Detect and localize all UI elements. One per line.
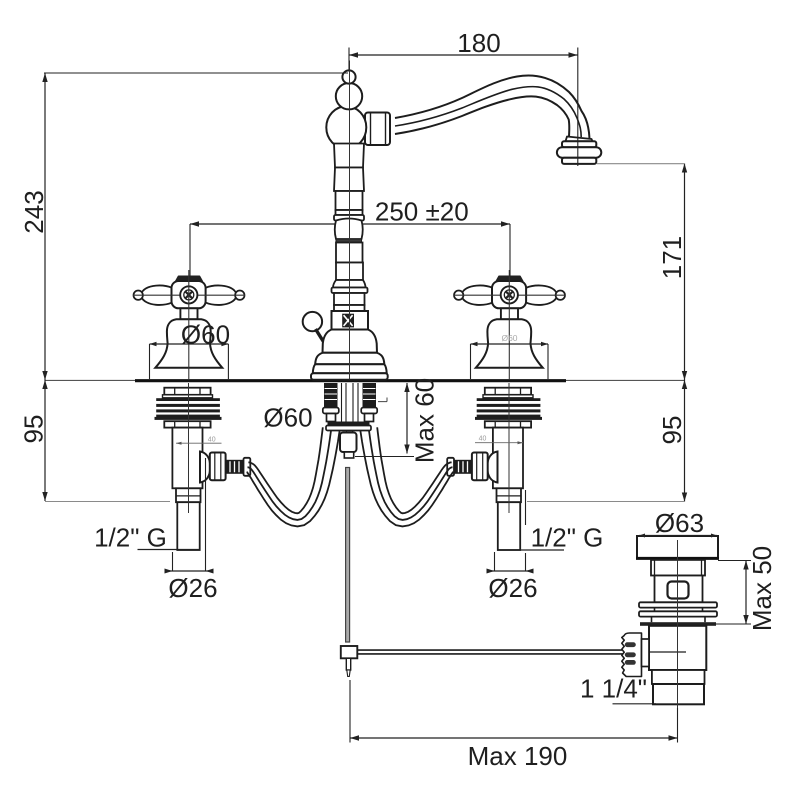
right elbow dome bbox=[487, 452, 497, 483]
left hose bbox=[247, 427, 340, 526]
svg-text:Ø63: Ø63 bbox=[655, 508, 704, 538]
drain upper body bbox=[655, 576, 703, 603]
column dark band bbox=[336, 239, 362, 243]
drain body between plates bbox=[655, 608, 703, 612]
thread mark line left valve bbox=[176, 442, 222, 445]
svg-text:250 ±20: 250 ±20 bbox=[375, 197, 469, 227]
mounting nut bbox=[340, 433, 357, 453]
drain mid body bbox=[649, 626, 706, 670]
drain plate 1 bbox=[639, 602, 717, 607]
pop-up knob plate bbox=[332, 311, 369, 330]
column centerline bbox=[349, 61, 351, 380]
serrated adjuster knob bbox=[622, 633, 642, 677]
under-deck stud right bbox=[363, 383, 377, 408]
tiny 40 left bbox=[208, 437, 216, 444]
column segment 9 bbox=[334, 305, 365, 311]
right handle bbox=[454, 270, 566, 379]
column bell dome bbox=[323, 330, 378, 353]
label 1/2 G right bbox=[498, 523, 604, 553]
dim 180 bbox=[349, 28, 578, 166]
label O60 column base bbox=[263, 403, 312, 433]
column bulge bbox=[335, 219, 363, 240]
drain flange bbox=[636, 536, 719, 558]
svg-text:40: 40 bbox=[479, 436, 487, 443]
svg-text:1/2" G: 1/2" G bbox=[94, 523, 167, 553]
deck extension thin left bbox=[45, 379, 135, 381]
svg-text:180: 180 bbox=[457, 28, 500, 58]
svg-text:Ø26: Ø26 bbox=[168, 573, 217, 603]
mounting cap bbox=[344, 452, 353, 458]
finial ball small bbox=[342, 70, 355, 83]
drain centerline bbox=[677, 540, 679, 731]
clamp bar bbox=[328, 422, 370, 426]
actuator rod inside drain bbox=[649, 651, 686, 653]
dim O60 bell left bbox=[150, 342, 229, 379]
under-deck rod housing lines bbox=[342, 383, 359, 433]
spout body bbox=[395, 76, 590, 139]
spout collar at column bbox=[365, 113, 390, 146]
svg-text:171: 171 bbox=[657, 236, 687, 279]
svg-text:243: 243 bbox=[19, 190, 49, 233]
under-deck tube right bbox=[365, 414, 374, 422]
column segment 7 bbox=[336, 263, 363, 281]
drain gasket bbox=[640, 622, 716, 626]
left elbow collar bbox=[244, 458, 251, 476]
thread mark line right valve bbox=[475, 441, 523, 444]
column bell tier 2 bbox=[315, 353, 384, 364]
drain body below plate2 bbox=[652, 617, 706, 623]
rod slider block bbox=[341, 646, 358, 658]
stud extension bracket bbox=[378, 398, 387, 402]
svg-text:95: 95 bbox=[19, 415, 49, 444]
finial ball large bbox=[336, 83, 362, 109]
right elbow nut bbox=[472, 453, 488, 481]
horizontal actuator rod bbox=[357, 650, 622, 654]
dim 95 right bbox=[527, 380, 687, 502]
column base ring bbox=[311, 373, 388, 380]
column neck segment 1 bbox=[334, 144, 364, 168]
dim 171 bbox=[597, 164, 687, 381]
drain neck bbox=[651, 560, 705, 576]
dim O26 right bbox=[487, 490, 538, 603]
left elbow nut bbox=[210, 453, 226, 481]
right elbow collar bbox=[447, 458, 454, 476]
left handle bbox=[133, 270, 245, 379]
right valve below deck bbox=[475, 388, 542, 550]
under-deck collar left bbox=[323, 408, 339, 414]
clamp plate bbox=[326, 426, 371, 431]
left valve below deck bbox=[155, 388, 222, 550]
dim Max 190 bbox=[350, 680, 678, 771]
svg-text:Max 190: Max 190 bbox=[468, 741, 568, 771]
label O60 handle bbox=[181, 320, 230, 350]
pop-up knob crossed square bbox=[343, 314, 354, 327]
under-deck stud left bbox=[324, 383, 338, 408]
spout outlet ring upper bbox=[562, 141, 596, 147]
tiny 40 right bbox=[479, 436, 487, 443]
svg-text:Ø60: Ø60 bbox=[263, 403, 312, 433]
column segment 3 bbox=[336, 191, 363, 210]
column segment 8 bbox=[334, 293, 365, 305]
column segment 4 bbox=[336, 210, 363, 215]
svg-text:Ø26: Ø26 bbox=[488, 573, 537, 603]
svg-text:1/2" G: 1/2" G bbox=[531, 523, 604, 553]
column bell skirt bbox=[313, 364, 387, 373]
label 1 1/4 bbox=[580, 674, 656, 704]
svg-text:Ø60: Ø60 bbox=[181, 320, 230, 350]
drain plate 2 bbox=[639, 611, 717, 616]
svg-text:95: 95 bbox=[657, 416, 687, 445]
dim 250 pm 20 bbox=[190, 197, 510, 278]
under-deck tube left bbox=[327, 414, 336, 422]
column segment 6 bbox=[336, 243, 363, 263]
dim 243 bbox=[19, 73, 348, 380]
right valve centerline bbox=[508, 383, 510, 513]
label O60 engraved right bell bbox=[501, 333, 517, 343]
lift lever ball bbox=[303, 312, 322, 331]
rod pin bbox=[346, 658, 350, 676]
deck line thick bbox=[135, 379, 566, 382]
right hose bbox=[360, 427, 453, 526]
svg-text:Ø60: Ø60 bbox=[501, 333, 517, 343]
lift lever rod bbox=[316, 329, 327, 347]
column flare bbox=[333, 280, 366, 288]
column ring 2 bbox=[332, 288, 368, 294]
drain overflow hole bbox=[668, 582, 689, 599]
drain tailpiece bbox=[653, 684, 704, 704]
dim Max 60 bbox=[355, 378, 440, 463]
spout outlet torus bbox=[557, 147, 601, 158]
knob connector bbox=[642, 639, 650, 667]
svg-text:Max 50: Max 50 bbox=[747, 546, 777, 631]
under-deck collar right bbox=[361, 408, 377, 414]
dim 95 left bbox=[19, 380, 171, 502]
svg-text:1 1/4": 1 1/4" bbox=[580, 674, 647, 704]
label 1/2 G left bbox=[94, 523, 200, 553]
dim O63 bbox=[639, 508, 717, 538]
deck extension thin right bbox=[566, 379, 685, 381]
column head bbox=[326, 106, 366, 148]
drain step bbox=[652, 670, 705, 684]
left elbow nipple bbox=[226, 460, 244, 474]
svg-text:Max 60: Max 60 bbox=[410, 378, 440, 463]
right elbow nipple bbox=[454, 460, 472, 474]
pop-up rod vertical bbox=[346, 468, 350, 643]
column ring 1 bbox=[334, 215, 364, 221]
dim O60 bell right bbox=[471, 342, 549, 379]
left elbow dome bbox=[200, 452, 210, 483]
left valve centerline bbox=[188, 383, 190, 513]
column segment 2 bbox=[334, 168, 364, 192]
dim O26 left bbox=[165, 458, 218, 603]
spout outlet ring lower bbox=[562, 158, 596, 164]
svg-text:40: 40 bbox=[208, 437, 216, 444]
spout outlet flare bbox=[566, 137, 593, 142]
dim Max 50 bbox=[716, 546, 777, 631]
